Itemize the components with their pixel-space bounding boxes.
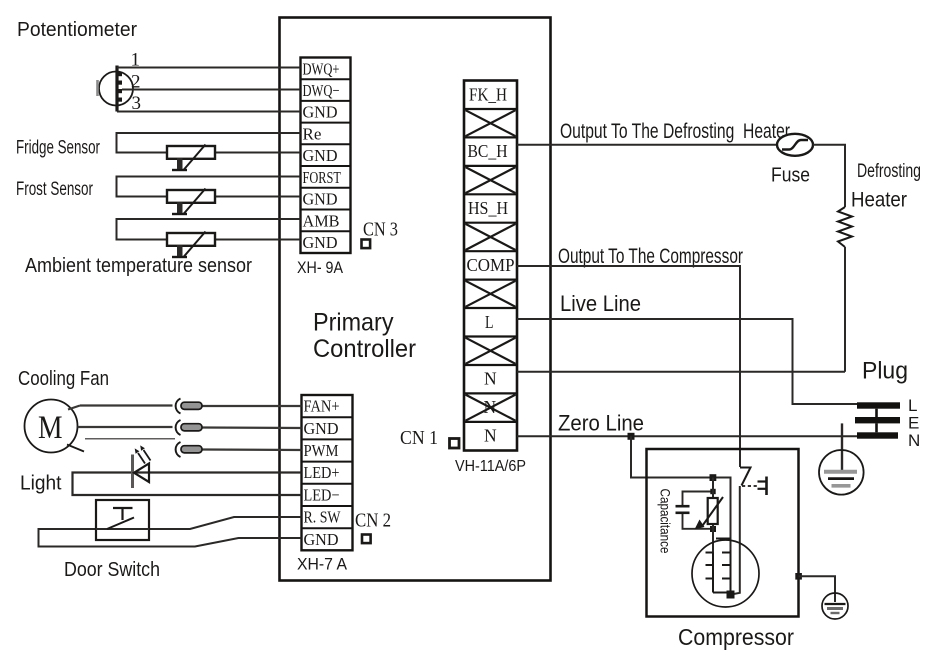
motor run winding: [716, 539, 731, 593]
svg-text:N: N: [484, 397, 497, 417]
door switch wires: [39, 517, 302, 547]
light loop wires: [73, 473, 302, 496]
PTC starter R2: [695, 497, 724, 530]
wire zero branch to compressor: [631, 436, 731, 550]
label Primary Controller: [313, 309, 416, 364]
svg-text:Light: Light: [20, 473, 62, 495]
wire fan PWM: [202, 448, 302, 451]
svg-text:Heater: Heater: [851, 189, 907, 212]
wire pot pin1 to DWQ+: [117, 67, 301, 69]
potentiometer pin numbers 1 2 3: [131, 50, 142, 115]
svg-text:Re: Re: [303, 124, 322, 143]
svg-text:L: L: [485, 312, 494, 332]
svg-text:GND: GND: [303, 233, 338, 252]
junction node cap bottom: [710, 526, 716, 532]
compressor motor M2: [692, 540, 759, 607]
svg-text:Door Switch: Door Switch: [64, 558, 160, 581]
potentiometer RP1: [98, 66, 134, 112]
wire zero line: [517, 435, 857, 437]
svg-text:VH-11A/6P: VH-11A/6P: [455, 458, 526, 475]
svg-text:Potentiometer: Potentiometer: [17, 19, 137, 41]
svg-text:XH- 9A: XH- 9A: [297, 259, 343, 277]
wire live line: [517, 319, 857, 404]
svg-text:HS_H: HS_H: [468, 198, 508, 218]
svg-text:L: L: [908, 396, 917, 415]
fridge sensor thermistor RT1: [167, 145, 215, 171]
capacitor C1: [676, 506, 690, 513]
svg-text:GND: GND: [303, 146, 338, 165]
earth symbol plug: [819, 450, 864, 495]
wire pot pin3 to GND: [117, 111, 301, 113]
svg-text:DWQ+: DWQ+: [303, 59, 340, 78]
svg-text:DWQ−: DWQ−: [303, 81, 340, 100]
junction node zero-cap: [710, 474, 717, 481]
door switch S1: [96, 500, 149, 540]
svg-text:LED−: LED−: [304, 485, 340, 504]
svg-text:FK_H: FK_H: [469, 84, 507, 104]
connector CN2 XH-7A: [302, 395, 353, 550]
wire PTC vertical: [712, 478, 714, 554]
plug pin E: [855, 417, 900, 423]
svg-text:Cooling Fan: Cooling Fan: [18, 368, 109, 390]
overload protector switch: [740, 468, 767, 496]
connector CN3 XH-9A: [301, 58, 351, 254]
fuse F1: [777, 134, 813, 156]
svg-text:N: N: [908, 431, 920, 450]
plug pin L: [857, 402, 900, 408]
wire N to heater: [517, 371, 845, 373]
svg-text:GND: GND: [303, 190, 338, 209]
svg-text:FORST: FORST: [303, 168, 342, 187]
fan connector 3: [176, 442, 202, 457]
svg-text:CN 1: CN 1: [400, 427, 438, 449]
svg-text:GND: GND: [304, 419, 339, 438]
svg-text:AMB: AMB: [303, 211, 340, 230]
connector CN1 VH-11A/6P: [464, 81, 517, 451]
frost sensor wires: [117, 177, 301, 197]
svg-text:E: E: [908, 414, 919, 433]
wire heater to N line: [844, 247, 846, 372]
svg-text:Fridge Sensor: Fridge Sensor: [16, 137, 100, 159]
capacitor C1 wires: [683, 492, 714, 529]
junction zero line node: [628, 433, 635, 440]
CN3 pin labels: [303, 59, 342, 252]
svg-text:Compressor: Compressor: [678, 624, 794, 650]
svg-text:COMP: COMP: [467, 255, 515, 275]
svg-text:Defrosting: Defrosting: [857, 161, 921, 182]
svg-text:LED+: LED+: [304, 463, 340, 482]
wire pot pin2 to DWQ-: [122, 89, 301, 91]
svg-text:Primary: Primary: [313, 309, 394, 337]
fan PWM stub: [67, 445, 84, 452]
wire BC_H to fuse: [517, 144, 777, 146]
svg-text:CN 3: CN 3: [363, 219, 398, 241]
svg-text:Output To The Compressor: Output To The Compressor: [558, 245, 743, 268]
junction node motor common: [727, 591, 735, 599]
wire fuse to heater corner: [813, 145, 845, 207]
earth symbol compressor: [822, 593, 848, 619]
ambient sensor wires: [117, 219, 301, 240]
fridge sensor wires: [117, 133, 301, 153]
svg-text:Live Line: Live Line: [560, 291, 641, 316]
svg-text:M: M: [38, 410, 63, 446]
plug pin ticks: [875, 409, 878, 433]
cooling fan motor M1: [25, 400, 78, 453]
svg-text:PWM: PWM: [304, 441, 339, 460]
label CN1: [400, 427, 459, 449]
defrosting heater R1 zigzag: [838, 207, 852, 247]
svg-text:Output To The Defrosting Heat: Output To The Defrosting Heater: [560, 120, 790, 143]
motor start winding: [706, 553, 731, 593]
fan connector 1: [176, 399, 202, 414]
frost sensor thermistor RT2: [167, 189, 215, 215]
svg-text:FAN+: FAN+: [304, 397, 340, 416]
svg-text:GND: GND: [304, 530, 339, 549]
plug pin N: [857, 432, 898, 438]
fan connector 2: [176, 420, 202, 435]
junction node case earth: [795, 573, 802, 580]
label CN3: [362, 219, 399, 249]
compressor box outline: [647, 449, 799, 617]
CN1 pin labels: [467, 84, 515, 445]
wire fan PWM thin sense: [85, 438, 175, 440]
wire fan FAN+: [68, 406, 302, 410]
wire overload to motor common: [731, 486, 740, 595]
svg-text:Capacitance: Capacitance: [658, 489, 674, 554]
svg-text:GND: GND: [303, 103, 338, 122]
svg-text:Ambient temperature sensor: Ambient temperature sensor: [25, 254, 252, 277]
ambient sensor thermistor RT3: [167, 232, 215, 258]
wire case to earth: [799, 576, 836, 602]
svg-text:BC_H: BC_H: [468, 141, 508, 161]
svg-text:N: N: [484, 369, 497, 389]
plug pin labels L E N: [908, 396, 920, 450]
svg-text:Frost Sensor: Frost Sensor: [16, 178, 93, 200]
svg-text:Fuse: Fuse: [771, 164, 810, 187]
wire E to earth: [841, 423, 843, 471]
CN1 X marks: [466, 110, 516, 421]
label CN2: [355, 510, 391, 544]
svg-text:XH-7 A: XH-7 A: [297, 556, 347, 574]
junction node cap top: [710, 489, 715, 494]
svg-text:Controller: Controller: [313, 335, 416, 363]
light LED D1: [133, 445, 151, 488]
wire fan GND: [78, 427, 302, 428]
CN2 pin labels: [304, 397, 342, 549]
svg-text:R. SW: R. SW: [304, 508, 342, 527]
controller box U1 outline: [280, 18, 551, 581]
svg-text:Plug: Plug: [862, 358, 908, 385]
svg-text:CN 2: CN 2: [355, 510, 391, 532]
wire COMP output: [517, 266, 740, 467]
svg-text:Zero Line: Zero Line: [558, 411, 644, 436]
svg-text:N: N: [484, 426, 497, 446]
